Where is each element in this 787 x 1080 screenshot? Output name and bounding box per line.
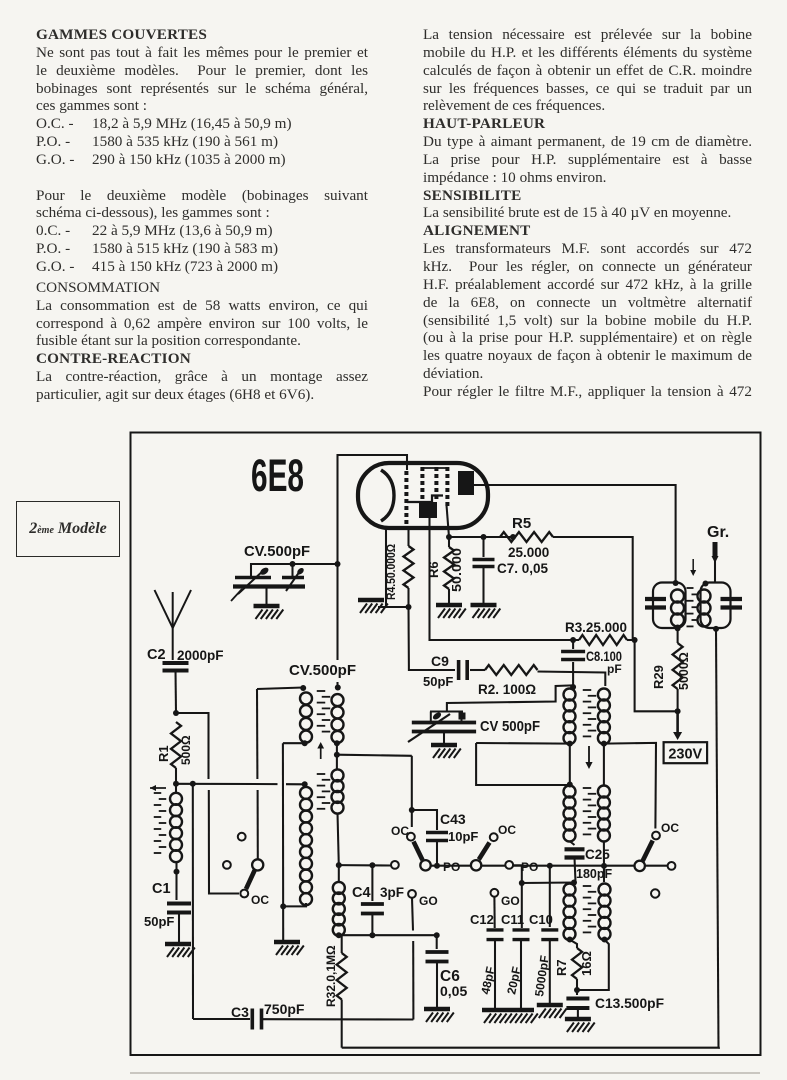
capacitor C12: [493, 897, 495, 928]
capacitor C6: [436, 935, 438, 949]
svg-text:GO: GO: [501, 894, 520, 908]
svg-text:Gr.: Gr.: [707, 524, 729, 541]
tube 6E8 cathode: [381, 470, 394, 521]
wire tuning bus: [339, 864, 392, 866]
ground C11: [508, 1008, 534, 1013]
resistor R1: [171, 722, 181, 768]
wire to S5 OC: [604, 743, 656, 829]
switch S5 wiper: [635, 861, 645, 871]
wire bottom bus: [342, 1047, 720, 1049]
svg-text:R1: R1: [156, 745, 171, 762]
ground L2: [274, 940, 300, 945]
transformer MF2 primary right coil: [598, 689, 610, 701]
svg-text:C25: C25: [585, 847, 610, 862]
ground CV1: [265, 587, 267, 605]
wire MF3 secondary bottom: [602, 937, 608, 943]
coil L2 oscillator: [300, 692, 312, 704]
ground C6: [424, 1007, 450, 1012]
switch S5 contact OC: [652, 832, 660, 840]
arrow L2 core: [320, 747, 322, 760]
coil L2 core: [317, 690, 326, 692]
svg-text:PO: PO: [443, 860, 460, 874]
svg-text:3pF: 3pF: [380, 885, 404, 900]
svg-text:R32.0,1MΩ: R32.0,1MΩ: [324, 945, 338, 1007]
svg-text:C7. 0,05: C7. 0,05: [497, 561, 549, 576]
svg-text:CV.500pF: CV.500pF: [289, 662, 356, 679]
transformer MF3 secondary coil: [599, 884, 611, 896]
svg-text:2000pF: 2000pF: [177, 648, 224, 663]
svg-text:5000Ω: 5000Ω: [677, 652, 691, 690]
wire AVC rail: [192, 784, 194, 1019]
wire L3 tap: [336, 743, 338, 770]
svg-text:R5: R5: [512, 515, 531, 532]
svg-text:C9: C9: [431, 653, 449, 669]
coil L3 oscillator: [332, 694, 344, 706]
wire MF2 secondary feed: [601, 741, 607, 747]
wire osc grid to S1 wiper: [256, 689, 258, 779]
wire R3 to R29 bottom: [635, 640, 678, 711]
tube 6E8 grid 2 (dotted): [420, 467, 424, 471]
tube 6E8 grid 3 (dotted): [434, 467, 438, 471]
schematic frame: [131, 433, 761, 1056]
tube 6E8 grid 1 (dotted): [404, 471, 408, 475]
wire anode to MF1: [474, 485, 676, 583]
svg-text:500Ω: 500Ω: [179, 735, 193, 765]
resistor R29: [675, 625, 681, 631]
antenna: [155, 590, 173, 628]
arrow MF2 core: [588, 746, 590, 764]
arrow to 230V: [676, 711, 679, 734]
switch S3 contact GO: [491, 889, 499, 897]
wire screen node: [449, 536, 513, 538]
svg-text:OC: OC: [391, 824, 409, 838]
svg-text:50pF: 50pF: [144, 914, 174, 929]
coil L3 core lower: [317, 773, 326, 775]
wire Gr feed: [713, 542, 718, 556]
switch S1 wiper: [252, 859, 263, 870]
wire MF2 right to bus: [603, 841, 605, 882]
svg-text:230V: 230V: [668, 747, 702, 763]
svg-text:6E8: 6E8: [251, 450, 304, 501]
capacitor C1: [174, 869, 180, 875]
svg-text:PO: PO: [521, 860, 538, 874]
wire HT right rail: [716, 629, 719, 1048]
transformer MF2 secondary right coil: [598, 786, 610, 798]
tube 6E8 envelope U1: [358, 463, 488, 528]
coil L2 lower: [300, 787, 312, 799]
wire R5 to anode node: [553, 537, 633, 640]
capacitor C43: [412, 810, 437, 830]
resistor R4: [407, 528, 409, 546]
svg-text:0,05: 0,05: [440, 983, 467, 999]
svg-text:CV.500pF: CV.500pF: [244, 543, 310, 560]
tube 6E8 internal connection: [407, 496, 443, 503]
svg-text:C12: C12: [470, 912, 494, 927]
capacitor C10: [549, 866, 551, 927]
switch S1 contact a: [238, 833, 246, 841]
capacitor C9: [457, 660, 461, 680]
wire osc grid top: [257, 688, 303, 690]
switch S2 contact OC: [407, 833, 415, 841]
transformer MF2 secondary left coil: [567, 782, 573, 788]
tube 6E8 hexode anode: [458, 471, 474, 495]
wire padder bus: [339, 934, 437, 936]
transformer MF2 primary left coil: [570, 684, 576, 690]
wire grid bus: [176, 783, 278, 785]
capacitor C7: [482, 537, 484, 557]
svg-text:CV 500pF: CV 500pF: [480, 718, 540, 735]
switch S5 contact c: [651, 889, 659, 897]
arrow MF1 core: [692, 559, 694, 572]
svg-text:50.000: 50.000: [450, 548, 464, 592]
switch S3 wiper: [471, 860, 481, 870]
svg-text:R7: R7: [554, 959, 569, 976]
svg-text:C2: C2: [147, 647, 166, 663]
switch S2 contact GO: [408, 890, 416, 898]
switch S2 wiper PO: [420, 860, 430, 870]
coil L3 lower: [332, 769, 344, 781]
wire CV1 to osc coil: [336, 564, 338, 660]
transformer MF1 core: [687, 587, 694, 589]
terminal 230V: [664, 742, 708, 763]
capacitor C25: [565, 847, 585, 851]
wire C3 rail: [193, 1018, 250, 1020]
wire C1 to ground: [178, 913, 180, 945]
svg-text:R3.25.000: R3.25.000: [565, 619, 627, 635]
coil L1: [170, 793, 182, 805]
svg-text:GO: GO: [419, 894, 438, 908]
switch S1 contact OC: [240, 890, 248, 898]
capacitor C3: [251, 1009, 255, 1030]
svg-text:C1: C1: [152, 881, 171, 897]
svg-text:C11: C11: [501, 912, 524, 927]
wire to wave switch: [176, 713, 209, 779]
svg-text:750pF: 750pF: [264, 1001, 305, 1017]
resistor R3: [579, 635, 627, 645]
scan edge line: [130, 1072, 760, 1074]
resistor R5: [500, 532, 553, 542]
wire R2 to MF2 primary: [538, 672, 606, 687]
transformer MF2 core: [583, 689, 592, 691]
svg-text:25.000: 25.000: [508, 545, 549, 560]
wire cathode to ground: [386, 528, 409, 607]
tube 6E8 grid 4 (dotted): [445, 467, 449, 471]
ground C12: [482, 1008, 508, 1013]
svg-text:OC: OC: [661, 821, 679, 835]
wire osc to S2: [411, 756, 413, 810]
svg-text:180pF: 180pF: [576, 867, 612, 881]
ground C1: [165, 942, 191, 947]
svg-text:16Ω: 16Ω: [579, 951, 594, 976]
wire anode drop: [430, 518, 580, 640]
ground C7: [471, 603, 497, 608]
capacitor C8: [570, 637, 576, 643]
wire C8 junction to CV osc: [447, 685, 572, 711]
ground C13: [565, 1017, 591, 1022]
wire C2 to R1: [174, 671, 177, 714]
ground CV osc: [443, 732, 445, 744]
transformer MF3 core: [583, 885, 592, 887]
wire PO to MF3 top: [522, 881, 574, 884]
coil L1 core: [154, 792, 162, 794]
svg-text:OC: OC: [251, 893, 269, 907]
ground C10: [537, 1003, 563, 1008]
tube 6E8 grid strap: [422, 467, 449, 469]
svg-text:R29: R29: [651, 665, 666, 689]
transformer MF1 secondary unit: [701, 583, 731, 629]
variable capacitor CV1 500pF: [251, 564, 338, 577]
switch S1 contact b: [223, 861, 231, 869]
resistor R7: [567, 937, 573, 943]
svg-text:C3: C3: [231, 1004, 249, 1020]
coil L4 padder: [333, 882, 345, 894]
svg-text:pF: pF: [607, 662, 622, 676]
wire L2 tap to ground: [302, 740, 308, 746]
wire R4 to C9: [409, 607, 456, 670]
svg-text:50pF: 50pF: [423, 674, 453, 689]
wire L3 to padder: [338, 813, 339, 865]
svg-text:C43: C43: [440, 811, 466, 827]
svg-text:C10: C10: [529, 912, 553, 927]
switch S2 contact left: [391, 861, 399, 869]
wire screen grid to R6: [447, 505, 450, 537]
transformer MF2 core lower: [583, 787, 592, 789]
capacitor C13: [566, 997, 589, 1001]
svg-text:R2. 100Ω: R2. 100Ω: [478, 682, 536, 697]
transformer MF3 primary coil: [564, 884, 576, 896]
switch S5 contact b: [668, 862, 676, 870]
svg-text:10pF: 10pF: [448, 829, 478, 844]
svg-text:C4: C4: [352, 885, 371, 901]
tube 6E8 triode anode: [419, 502, 437, 518]
wire grid top: [338, 455, 408, 564]
resistor R32: [341, 935, 343, 953]
capacitor C11: [505, 861, 513, 869]
svg-text:R4.50.000Ω: R4.50.000Ω: [384, 544, 398, 600]
switch S3 contact OC: [490, 833, 498, 841]
resistor R6: [446, 534, 452, 540]
svg-text:C13.500pF: C13.500pF: [595, 995, 664, 1011]
variable capacitor CV osc 500pF: [430, 711, 463, 713]
wire L2 bottom: [280, 903, 286, 909]
ground R6: [436, 603, 462, 608]
label 2eme Modele: [16, 501, 120, 557]
svg-text:OC: OC: [498, 823, 516, 837]
resistor R2: [470, 669, 485, 671]
ground cathode: [358, 598, 384, 603]
svg-text:R6: R6: [426, 561, 441, 578]
capacitor C4: [371, 865, 373, 901]
transformer MF1 primary unit: [653, 583, 686, 629]
capacitor C2: [163, 661, 189, 665]
switch S2 contact GO wire to AVC line: [412, 898, 413, 931]
